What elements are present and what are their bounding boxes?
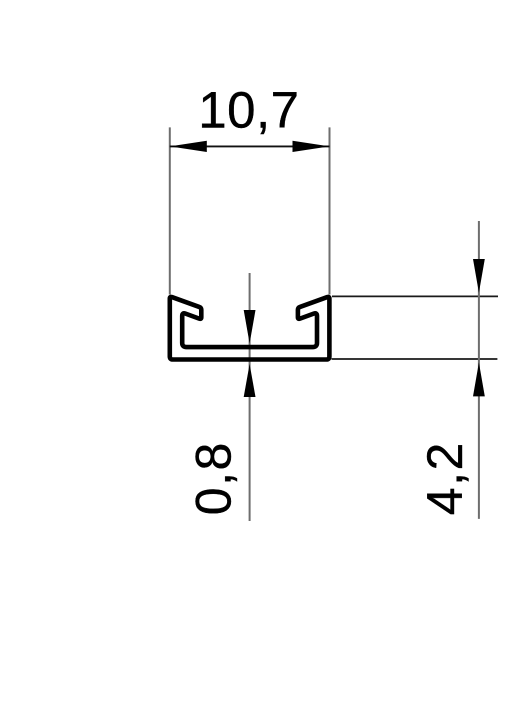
dimension line 10,7 bbox=[170, 145, 330, 147]
C-channel profile outline bbox=[170, 297, 330, 360]
extension line bottom (height 4,2) bbox=[332, 358, 498, 360]
arrowhead right (10,7) bbox=[293, 141, 330, 152]
arrowhead left (10,7) bbox=[170, 141, 207, 152]
centre dimension line (0,8) vertical bbox=[249, 273, 251, 521]
svg-text:4,2: 4,2 bbox=[417, 441, 473, 515]
arrowhead down (0,8 upper) bbox=[244, 310, 256, 344]
svg-text:10,7: 10,7 bbox=[198, 81, 299, 138]
extension line top (height 4,2) bbox=[332, 295, 498, 297]
svg-text:0,8: 0,8 bbox=[186, 441, 242, 515]
arrowhead down (4,2 upper) bbox=[473, 259, 485, 293]
extension line left (width 10,7) bbox=[169, 127, 171, 294]
dimension line 4,2 vertical bbox=[478, 221, 480, 519]
arrowhead up (0,8 lower) bbox=[244, 364, 256, 397]
extension line right (width 10,7) bbox=[329, 127, 331, 294]
arrowhead up (4,2 lower) bbox=[473, 363, 485, 397]
